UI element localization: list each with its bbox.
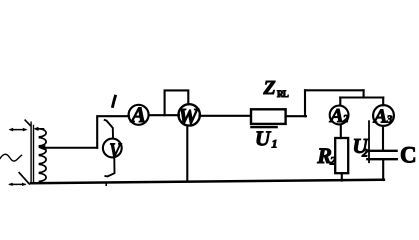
- ammeter A3: [373, 105, 394, 126]
- svg-text:C: C: [400, 142, 417, 167]
- svg-text:2: 2: [361, 146, 368, 160]
- svg-text:1: 1: [272, 136, 278, 150]
- voltmeter bottom probe hook: [105, 159, 114, 177]
- svg-text:A: A: [372, 105, 387, 127]
- autotransformer winding (coil bumps): [40, 129, 47, 182]
- svg-text:V: V: [109, 140, 122, 163]
- lead R2 to bottom rail: [341, 173, 343, 180]
- top feed wire: [305, 89, 364, 91]
- wire riser from tap to main wire: [97, 116, 129, 148]
- wattmeter W: [179, 104, 200, 125]
- svg-text:A: A: [328, 105, 343, 127]
- lead A2 to R2: [340, 126, 342, 138]
- svg-text:RL: RL: [277, 89, 289, 99]
- autotransformer core double line: [30, 122, 32, 183]
- ammeter A: [129, 105, 149, 125]
- ammeter A2: [330, 106, 349, 125]
- impedance box ZRL: [251, 109, 286, 124]
- lead A3 to capacitor: [382, 126, 384, 150]
- voltage mark line U2: [368, 121, 370, 162]
- branch bus: [340, 96, 383, 98]
- bottom rail: [31, 180, 384, 184]
- winding top tap wire with arrowhead: [37, 128, 44, 130]
- mains terminal wire (bottom): [10, 183, 25, 185]
- wattmeter down lead to bottom rail: [186, 126, 188, 180]
- drop to A2: [339, 98, 341, 106]
- label I: [112, 95, 115, 108]
- arrowhead right (top terminal): [23, 128, 28, 132]
- mains terminal wire (top): [11, 129, 26, 131]
- arrowhead right (bottom terminal): [22, 183, 27, 186]
- voltmeter V1: [103, 139, 122, 158]
- svg-text:U: U: [255, 126, 272, 150]
- riser up after box: [304, 90, 306, 116]
- overline bar of U1: [250, 126, 278, 128]
- switch blade (bottom): [19, 173, 29, 184]
- switch blade (top): [25, 120, 30, 126]
- jog down to branch bus: [363, 90, 365, 97]
- svg-text:Z: Z: [263, 77, 276, 99]
- capacitor C bottom plate: [367, 158, 397, 160]
- AC source squiggle: [0, 154, 22, 161]
- resistor R2: [335, 138, 348, 173]
- svg-text:W: W: [178, 104, 199, 129]
- arrowhead left (bottom terminal): [8, 183, 13, 186]
- artifact tick below rail: [105, 183, 107, 186]
- svg-text:A: A: [129, 102, 146, 127]
- capacitor C top plate: [366, 150, 396, 152]
- wiper arrow (tap): [44, 147, 97, 149]
- svg-text:2: 2: [342, 113, 349, 125]
- wire W to ZRL box: [200, 115, 252, 117]
- wire A to W: [150, 114, 180, 116]
- svg-text:3: 3: [386, 113, 393, 125]
- lead capacitor to bottom rail: [382, 160, 384, 180]
- drop to A3: [382, 98, 384, 106]
- voltmeter top probe hook: [105, 120, 113, 138]
- wattmeter voltage-coil bridge: [165, 90, 189, 115]
- arrowhead left (top terminal): [9, 128, 14, 132]
- wire box to riser: [286, 115, 306, 117]
